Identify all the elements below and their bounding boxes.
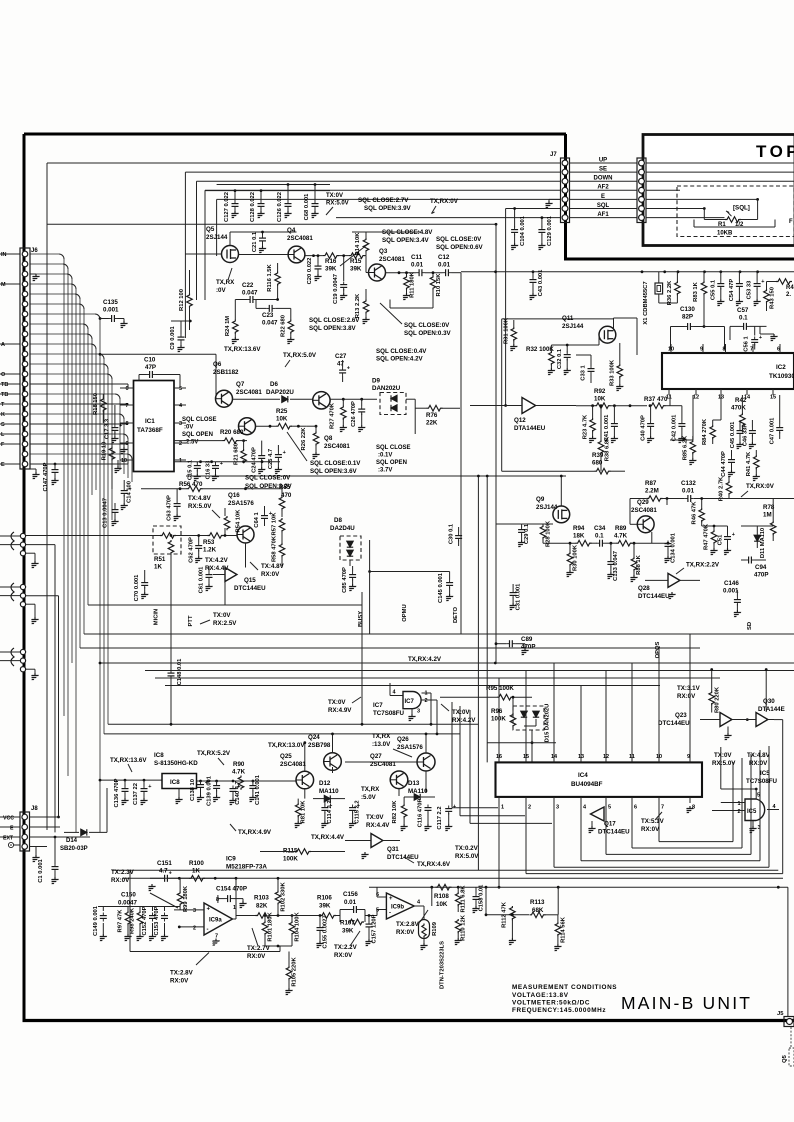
svg-text:2SA1576: 2SA1576: [228, 500, 254, 507]
wire Q5 drain rail: [229, 232, 231, 246]
svg-text:TC7S08FU: TC7S08FU: [373, 710, 404, 717]
svg-text:D8: D8: [334, 517, 342, 524]
svg-text:RX:5.0V: RX:5.0V: [188, 503, 212, 510]
wire to Q25 base: [266, 780, 296, 782]
resistor R112 47K: [510, 906, 516, 920]
junction node pin E panel: [756, 198, 759, 201]
svg-text:C12: C12: [438, 254, 450, 261]
transistor Q31 DTC144EU: [371, 834, 383, 848]
transistor Q28 DTC144EU: [668, 573, 680, 587]
svg-text:J6: J6: [31, 248, 38, 254]
dashed box with resistor R52: [153, 526, 181, 554]
svg-text:TX,RX:0V: TX,RX:0V: [430, 198, 459, 205]
svg-text:R57 10K: R57 10K: [272, 512, 278, 536]
svg-text:3: 3: [556, 805, 559, 811]
svg-text:C54 47P: C54 47P: [729, 279, 735, 302]
svg-text:C33 1: C33 1: [581, 364, 587, 380]
opamp IC9a: [204, 903, 233, 935]
svg-text:R25: R25: [276, 408, 288, 415]
svg-text:1: 1: [501, 805, 504, 811]
resistor R22: [288, 320, 294, 334]
transistor Q17 DTC144EU: [591, 807, 605, 821]
svg-text:R84 270K: R84 270K: [702, 418, 708, 445]
svg-text:1K: 1K: [154, 564, 162, 571]
svg-text:5: 5: [376, 908, 379, 914]
svg-text:2SB798: 2SB798: [308, 742, 331, 749]
svg-text:TX:0V: TX:0V: [328, 699, 346, 706]
svg-text:2.: 2.: [786, 292, 791, 298]
opamp IC9b: [386, 893, 414, 919]
supply rail y724: [108, 723, 478, 725]
wire R16-R15: [338, 255, 349, 257]
svg-text:5: 5: [179, 386, 182, 392]
jack connector 2: [20, 584, 25, 589]
wire IC9b pin6: [377, 896, 386, 898]
wire pot bottom rail: [693, 220, 695, 228]
diode D14 SB20-03P: [64, 831, 79, 833]
svg-text:C20 0.022: C20 0.022: [307, 258, 313, 285]
svg-text:5: 5: [608, 805, 611, 811]
svg-text:R95 100K: R95 100K: [486, 685, 514, 692]
capacitor C64 1: [261, 513, 268, 522]
svg-text:0.01: 0.01: [411, 262, 424, 269]
svg-text:R87: R87: [645, 480, 657, 487]
svg-text:39K: 39K: [319, 903, 331, 910]
svg-text:RX:0V: RX:0V: [170, 978, 189, 985]
svg-text:18K: 18K: [573, 533, 585, 540]
capacitor C68: [314, 185, 316, 201]
svg-text:C137 22: C137 22: [133, 783, 139, 805]
svg-text:C149 0.001: C149 0.001: [93, 905, 99, 936]
svg-text:SQL CLOSE: SQL CLOSE: [376, 445, 411, 451]
svg-text:39K: 39K: [350, 266, 362, 273]
svg-text:Q12: Q12: [514, 417, 526, 424]
svg-text:DTC144EU: DTC144EU: [638, 593, 670, 600]
svg-text:C141 0.001: C141 0.001: [255, 774, 261, 805]
svg-text:DA2D4U: DA2D4U: [330, 525, 355, 532]
wire IC8 input rail: [100, 779, 162, 781]
capacitor C149: [100, 913, 107, 922]
wire D13 to caps: [421, 796, 449, 798]
svg-text:0.1: 0.1: [739, 315, 748, 322]
svg-text:TX,RX:5.0V: TX,RX:5.0V: [283, 352, 317, 359]
svg-text:Q27: Q27: [370, 753, 382, 760]
svg-text:S-81350HG-KD: S-81350HG-KD: [154, 760, 198, 767]
resistor R44 2.2K cut at edge: [776, 279, 792, 285]
svg-text::0V: :0V: [216, 287, 227, 294]
capacitor C145 0.001: [446, 580, 453, 589]
svg-text:10K: 10K: [436, 901, 448, 908]
svg-text:1M: 1M: [763, 512, 772, 519]
resistor R104 100K: [289, 921, 295, 935]
IC IC4 BU4094BF: [496, 762, 703, 797]
wires J6 pins to vertical buses: [30, 253, 59, 255]
svg-text:C148 0.01: C148 0.01: [177, 658, 183, 686]
svg-text:15: 15: [770, 395, 776, 401]
resistor R19: [109, 447, 115, 461]
capacitor C152: [149, 913, 156, 922]
svg-text:TX,RX:13.0V: TX,RX:13.0V: [268, 742, 305, 749]
svg-text:R16: R16: [325, 258, 337, 265]
svg-text:TK10930: TK10930: [769, 373, 794, 380]
capacitor C89 470P: [506, 640, 515, 647]
svg-text:TX,RX:4.4V: TX,RX:4.4V: [311, 834, 345, 841]
svg-text:IC8: IC8: [154, 752, 164, 759]
svg-text:C34: C34: [594, 525, 606, 532]
resistor R98: [137, 911, 143, 925]
resistor R38 6.8K: [598, 440, 604, 454]
svg-text:C156: C156: [343, 891, 358, 898]
ground IC7 pin3: [411, 709, 413, 715]
svg-text:IC9b: IC9b: [391, 905, 404, 911]
svg-text:R114 56K: R114 56K: [561, 916, 567, 943]
svg-text:C55 0.1: C55 0.1: [711, 279, 717, 300]
svg-text:Q28: Q28: [638, 585, 650, 592]
ground jack1: [26, 552, 35, 554]
wire Q26 collector emitter: [425, 734, 427, 753]
svg-text:Q24: Q24: [308, 734, 320, 741]
svg-text:Q11: Q11: [562, 315, 574, 322]
svg-text:R22 680: R22 680: [281, 315, 287, 337]
svg-text:R36 2.2K: R36 2.2K: [667, 280, 673, 305]
wire R12 to C9: [171, 320, 190, 322]
wire Q7 R25 row: [256, 425, 277, 427]
svg-text:C9 0.001: C9 0.001: [170, 325, 176, 349]
svg-text:C128 0.022: C128 0.022: [250, 192, 256, 222]
svg-text:C32 0.1: C32 0.1: [557, 348, 563, 369]
capacitor C54 47P: [736, 281, 743, 290]
svg-text:1: 1: [179, 458, 182, 464]
svg-text:[SQL]: [SQL]: [733, 205, 750, 212]
svg-text:R103: R103: [254, 895, 269, 902]
capacitor C40 470P: [647, 421, 654, 430]
wire Q11 cluster loop: [502, 318, 614, 320]
svg-text:2SC4081: 2SC4081: [324, 443, 350, 450]
svg-text:C151: C151: [157, 860, 172, 867]
capacitor C147: [54, 463, 57, 466]
svg-text::5.0V: :5.0V: [361, 794, 377, 801]
svg-text:RX:0V: RX:0V: [641, 826, 660, 833]
resistor R36 2.2K: [675, 281, 681, 295]
svg-text:C42 0.001: C42 0.001: [672, 414, 678, 442]
thermistor R109: [419, 920, 430, 939]
jack connector 3: [20, 533, 25, 538]
svg-text:TX:0V: TX:0V: [213, 612, 231, 619]
bus wire y685: [165, 685, 660, 687]
svg-text:FREQUENCY:145.0000MHz: FREQUENCY:145.0000MHz: [512, 1007, 606, 1014]
svg-text:C31 0.001: C31 0.001: [516, 583, 522, 611]
wire mic jack to R52: [26, 535, 160, 537]
svg-text:SQL CLOSE:0.4V: SQL CLOSE:0.4V: [376, 348, 427, 355]
svg-text:Q3: Q3: [379, 248, 388, 255]
svg-text:2SB1182: 2SB1182: [213, 369, 239, 376]
svg-text:TX:3.1V: TX:3.1V: [677, 685, 701, 692]
svg-text:TX:0V: TX:0V: [452, 709, 470, 716]
svg-text:R54 10K: R54 10K: [236, 509, 242, 533]
svg-text:IC9: IC9: [226, 856, 236, 863]
resistor R16: [323, 253, 339, 259]
IC IC7 TC7S08FU gate: [403, 692, 421, 709]
svg-text:R26 22K: R26 22K: [301, 427, 307, 451]
svg-text:AF2: AF2: [597, 185, 609, 191]
wire D15 down to IC4: [531, 730, 533, 762]
svg-text:R40 2.7K: R40 2.7K: [719, 476, 725, 501]
svg-text:R116 1.5K: R116 1.5K: [267, 263, 273, 291]
resistor R26 22K: [313, 432, 319, 446]
svg-text:RX:0V: RX:0V: [677, 693, 696, 700]
svg-text:2: 2: [528, 805, 531, 811]
svg-text:C115 2.2: C115 2.2: [355, 800, 361, 823]
capacitor C46 33P: [749, 428, 756, 437]
svg-text:-: -: [389, 911, 391, 917]
capacitor C62 470P: [195, 543, 202, 552]
svg-text:2SJ144: 2SJ144: [206, 234, 228, 241]
svg-text:82P: 82P: [682, 314, 693, 321]
wire: main unit border top: [24, 133, 566, 136]
svg-text:R94: R94: [573, 525, 585, 532]
wire IC9a pins: [174, 909, 204, 911]
svg-text:4.7K: 4.7K: [614, 533, 628, 540]
svg-text:C17 3.3: C17 3.3: [105, 418, 111, 439]
svg-text:J5: J5: [777, 1011, 784, 1017]
transistor Q12 DTA144EU: [522, 398, 536, 414]
capacitor C115 2.2: [349, 805, 356, 814]
svg-text:R27 470K: R27 470K: [330, 402, 336, 429]
capacitor C44 470P: [728, 457, 735, 466]
svg-text:IC1: IC1: [145, 418, 155, 425]
wire top rail y190.6: [205, 190, 330, 192]
resistor R47 470K: [711, 530, 717, 544]
svg-text:C94: C94: [755, 564, 767, 571]
svg-text:C152 470P: C152 470P: [142, 906, 148, 935]
svg-text:C15 0.1: C15 0.1: [188, 459, 194, 480]
resistor R27 470K: [341, 406, 347, 420]
wire IC7 pins 1 2 right: [422, 692, 432, 694]
capacitor C42 0.001: [678, 421, 685, 430]
svg-text:D13: D13: [408, 780, 420, 787]
resistor R116: [275, 272, 281, 286]
svg-text:E: E: [601, 194, 605, 200]
svg-text:TX,RX:0V: TX,RX:0V: [746, 483, 775, 490]
svg-text:IC8: IC8: [170, 779, 180, 786]
svg-text:C63 470P: C63 470P: [167, 495, 173, 521]
svg-text:R53: R53: [203, 539, 215, 546]
svg-text:R102 330K: R102 330K: [281, 882, 287, 912]
svg-text::0V: :0V: [184, 425, 193, 431]
ground jack2: [26, 603, 35, 605]
svg-text:C116 470P: C116 470P: [418, 799, 424, 828]
resistor R111 6.8K: [455, 892, 461, 906]
wire R113 out to bus: [557, 887, 559, 915]
bus wire lower horizontal: [47, 223, 496, 225]
ground IC1 pin9: [123, 443, 125, 447]
svg-text:TB: TB: [1, 392, 8, 398]
capacitor C31 0.001: [510, 590, 517, 599]
wire Q29: [629, 499, 631, 525]
resistor R85 6.2K: [690, 440, 696, 454]
svg-text:D6: D6: [270, 381, 278, 388]
svg-text:OPMU: OPMU: [402, 604, 408, 621]
svg-text:C40 470P: C40 470P: [641, 415, 647, 441]
svg-text:C46 33P: C46 33P: [743, 424, 749, 447]
wire busy down: [361, 592, 363, 724]
capacitor C47: [776, 425, 783, 434]
svg-text:SQL CLOSE:0V: SQL CLOSE:0V: [436, 236, 482, 243]
capacitor C117 2.2: [445, 806, 452, 815]
svg-text:E: E: [10, 826, 14, 832]
ground IC4 pin8: [684, 806, 693, 813]
svg-text:C150: C150: [121, 892, 136, 899]
svg-text:470K: 470K: [731, 405, 746, 412]
svg-text:Q9: Q9: [536, 496, 545, 503]
svg-text:SQL OPEN:3.9V: SQL OPEN:3.9V: [364, 205, 412, 212]
IC IC1 TA7368F: [134, 381, 175, 472]
svg-text:DTC144EU: DTC144EU: [658, 720, 690, 727]
capacitor C116 470P: [425, 805, 432, 814]
svg-text:4.7K: 4.7K: [232, 769, 246, 776]
svg-text:3: 3: [417, 709, 420, 715]
resistor R12: [187, 294, 193, 308]
capacitor C29 0.1: [518, 527, 525, 536]
wire Q25 Q27 emitter rail: [304, 789, 306, 799]
svg-text:10KB: 10KB: [717, 231, 733, 237]
svg-text:2SC4081: 2SC4081: [236, 389, 262, 396]
supply rail y734: [104, 733, 460, 735]
ground C151: [151, 878, 153, 884]
svg-text:C14 100: C14 100: [127, 481, 133, 503]
svg-text:SB20-03P: SB20-03P: [60, 846, 88, 852]
svg-text:47: 47: [337, 361, 344, 368]
svg-text:C22: C22: [242, 282, 254, 289]
svg-text:2SC4081: 2SC4081: [287, 235, 313, 242]
capacitor C70 0.001: [141, 580, 148, 589]
wire IC1 out rails: [186, 465, 560, 467]
svg-text:R4: R4: [786, 285, 794, 291]
capacitor C85 470P: [349, 572, 356, 581]
resistor R51 1K: [170, 534, 173, 537]
svg-text:OPQS: OPQS: [655, 641, 661, 658]
resistor R105 220K: [286, 966, 292, 980]
svg-text:C45 0.001: C45 0.001: [730, 421, 736, 449]
capacitor C139 0.001: [213, 783, 220, 792]
wire R46 to C51: [702, 525, 728, 527]
svg-text:C129 0.001: C129 0.001: [547, 215, 553, 246]
svg-text:+: +: [389, 896, 393, 902]
svg-text:J7: J7: [550, 152, 557, 158]
svg-text:C62 470P: C62 470P: [189, 537, 195, 563]
wire left input: [85, 906, 98, 908]
IC IC2 TK10930V: [662, 353, 794, 389]
vertical from C12 down: [460, 273, 462, 634]
svg-text:-: -: [207, 927, 209, 933]
wire to J5: [787, 887, 789, 1016]
svg-text:R80 220K: R80 220K: [715, 686, 721, 713]
svg-text:R11 180K: R11 180K: [410, 271, 416, 298]
svg-text:C11: C11: [411, 254, 423, 261]
resistor R31 100K: [511, 327, 517, 341]
svg-text:C64 1: C64 1: [254, 511, 260, 527]
svg-text:1: 1: [738, 801, 741, 807]
svg-text:10: 10: [121, 458, 127, 464]
svg-text:0.047: 0.047: [242, 290, 258, 297]
bus wire y670: [145, 670, 794, 672]
resistor R33 100K: [617, 364, 623, 378]
svg-text:470P: 470P: [754, 572, 768, 579]
svg-text:BUSY: BUSY: [358, 611, 364, 627]
svg-text:12: 12: [693, 395, 699, 401]
capacitor C133 0.047: [607, 559, 614, 568]
svg-text:R12 100: R12 100: [179, 289, 185, 311]
svg-text::3.7V: :3.7V: [378, 468, 392, 474]
svg-text:R97 47K: R97 47K: [118, 909, 124, 933]
svg-text:0.01: 0.01: [438, 262, 451, 269]
svg-text:C126 0.022: C126 0.022: [277, 192, 283, 222]
svg-text:R89: R89: [615, 525, 627, 532]
svg-text:2: 2: [738, 809, 741, 815]
capacitor C137 22: [141, 786, 148, 795]
svg-text:DAP202U: DAP202U: [266, 389, 294, 396]
wire: main unit border right upper: [564, 134, 567, 259]
resistor R102 330K: [275, 891, 281, 905]
svg-text:SQL OPEN: SQL OPEN: [376, 460, 407, 466]
wire top rail y887: [369, 886, 788, 888]
capacitor C61 0.001: [206, 572, 213, 581]
resistor R82 10K: [401, 804, 407, 818]
capacitor C63 470P: [174, 501, 181, 510]
transistor Q30 DTA144E: [756, 713, 768, 727]
svg-text:22K: 22K: [426, 420, 438, 427]
resistor R84 270K: [710, 425, 716, 439]
wire: main unit border notch to right edge: [564, 258, 794, 261]
svg-text::0.1V: :0.1V: [378, 453, 392, 459]
svg-text:TX,RX:4.2V: TX,RX:4.2V: [408, 656, 442, 663]
capacitor C25: [275, 452, 282, 461]
svg-text:M: M: [1, 282, 6, 288]
wire branch to C135: [99, 317, 102, 320]
svg-text:C68 0.001: C68 0.001: [304, 193, 310, 221]
svg-text:RX:4.4V: RX:4.4V: [366, 822, 390, 829]
svg-text:TX,RX:13.6V: TX,RX:13.6V: [110, 757, 147, 764]
wire IF rail y271.8: [461, 271, 794, 273]
resistor R24: [233, 320, 239, 334]
svg-text:IC7: IC7: [373, 702, 383, 709]
svg-text:C53 33: C53 33: [747, 280, 753, 299]
svg-text:RX:0V: RX:0V: [261, 571, 280, 578]
svg-text:TX,RX: TX,RX: [372, 733, 391, 740]
vertical net x496: [495, 224, 497, 663]
svg-text:SQL OPEN: SQL OPEN: [182, 432, 213, 438]
svg-text:C24 470P: C24 470P: [252, 447, 258, 473]
svg-text:Q4: Q4: [287, 227, 296, 234]
svg-text:+: +: [148, 784, 151, 790]
transistor Q13 9 label 2SJ144 row wire: [496, 523, 538, 525]
svg-text:C117 2.2: C117 2.2: [437, 806, 443, 829]
svg-text:TX:4.8V: TX:4.8V: [188, 495, 212, 502]
svg-text:R110 12K: R110 12K: [461, 914, 467, 941]
svg-text:R81 10K: R81 10K: [301, 800, 307, 824]
wire busy to C145: [368, 570, 371, 573]
capacitor C128: [260, 191, 262, 201]
capacitor C138 10: [197, 782, 204, 791]
svg-text:DTA144EU: DTA144EU: [514, 425, 546, 432]
transistor Q23 DTC144EU: [720, 713, 732, 727]
svg-text:TX,RX: TX,RX: [361, 786, 380, 793]
svg-text:D14: D14: [66, 838, 78, 844]
svg-text:TX,RX:13.6V: TX,RX:13.6V: [224, 346, 261, 353]
svg-text:C44 470P: C44 470P: [721, 451, 727, 477]
wire R15-R14: [364, 255, 366, 257]
svg-text:0.1: 0.1: [595, 533, 604, 540]
